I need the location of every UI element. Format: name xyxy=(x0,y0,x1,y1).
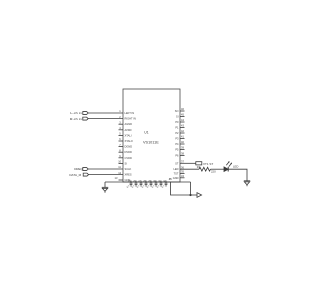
svg-text:ST: ST xyxy=(175,161,179,165)
wire pin 36 to resistor R1 xyxy=(180,168,199,170)
svg-text:P4: P4 xyxy=(175,142,179,146)
svg-text:L-ch in: L-ch in xyxy=(70,111,82,115)
pin 10 stub xyxy=(119,162,124,164)
pin 13 stub xyxy=(119,179,124,181)
right pin numbers xyxy=(181,107,184,178)
port P2 R-ch input connector xyxy=(83,117,88,120)
pin 39 stub xyxy=(180,149,185,151)
svg-text:LED: LED xyxy=(233,164,238,168)
pin 42 stub xyxy=(180,132,185,134)
wire D1 cathode to ground xyxy=(228,169,247,181)
wire port P1 to pin 1 xyxy=(88,112,123,114)
svg-text:220: 220 xyxy=(211,170,216,174)
port P1 L-ch input connector xyxy=(83,112,88,115)
svg-text:R-ch in: R-ch in xyxy=(70,117,82,121)
capacitor C8 xyxy=(165,181,168,187)
wire bus right drop xyxy=(190,182,192,195)
wire port P2 to pin 2 xyxy=(88,118,123,120)
junction node audio out xyxy=(189,194,191,196)
svg-text:CVDD: CVDD xyxy=(125,156,132,160)
svg-text:P6: P6 xyxy=(175,154,179,158)
svg-text:P3: P3 xyxy=(175,137,179,141)
capacitor C6 xyxy=(155,181,158,187)
svg-text:XTALI: XTALI xyxy=(125,133,132,137)
wire pin 37 to jumper J1 xyxy=(180,162,196,164)
wire R1 to LED D1 anode xyxy=(211,168,225,170)
wire bus to left ground xyxy=(104,182,106,187)
port P4 input connector xyxy=(83,173,88,176)
wire port P3 to pin 11 xyxy=(88,168,123,170)
capacitor C7 xyxy=(160,181,163,187)
jumper J1 box xyxy=(196,162,202,165)
LED D1 triangle xyxy=(224,167,228,172)
ground symbol right (LED) xyxy=(244,181,250,186)
svg-text:LEFT IN: LEFT IN xyxy=(125,111,135,115)
left pin numbers xyxy=(115,109,122,180)
ground symbol left xyxy=(102,187,108,192)
pin 38 stub xyxy=(180,155,185,157)
capacitor C4 xyxy=(145,181,148,187)
LED D1 cathode bar xyxy=(227,167,229,172)
wire port P4 to pin 12 xyxy=(89,174,123,176)
pin 44 stub xyxy=(180,121,185,123)
svg-text:VS1011E: VS1011E xyxy=(143,141,159,145)
capacitor C1 xyxy=(130,181,133,187)
svg-text:SI: SI xyxy=(176,115,179,119)
pin 35 stub xyxy=(180,173,185,175)
ground bus bottom xyxy=(105,181,191,183)
svg-text:P0: P0 xyxy=(175,120,179,124)
svg-text:R1: R1 xyxy=(197,165,201,169)
svg-text:LED: LED xyxy=(173,167,178,171)
svg-text:AGND: AGND xyxy=(125,122,133,126)
pin 46 stub xyxy=(180,110,185,112)
svg-text:XTALO: XTALO xyxy=(125,139,133,143)
wire audio out left drop xyxy=(171,182,191,195)
svg-text:SCLK: SCLK xyxy=(125,167,132,171)
svg-text:DREQ: DREQ xyxy=(74,167,83,171)
svg-text:U1: U1 xyxy=(144,131,148,135)
pin 6 stub xyxy=(119,140,124,142)
pin 7 stub xyxy=(119,146,124,148)
svg-text:SO: SO xyxy=(175,109,179,113)
wire junction to output port xyxy=(191,194,198,196)
svg-text:VT1 ST: VT1 ST xyxy=(203,162,213,166)
svg-text:TST: TST xyxy=(174,172,179,176)
svg-text:AVDD: AVDD xyxy=(125,128,132,132)
pin 45 stub xyxy=(180,116,185,118)
svg-text:DGND: DGND xyxy=(125,145,133,149)
capacitor C5 xyxy=(150,181,153,187)
capacitor C3 xyxy=(140,181,143,187)
pin 3 stub xyxy=(119,123,124,125)
resistor R1 zigzag xyxy=(199,167,211,171)
svg-text:XRES: XRES xyxy=(125,173,132,177)
svg-text:SI: SI xyxy=(125,161,128,165)
svg-text:RIGHT IN: RIGHT IN xyxy=(125,117,136,121)
LED D1 emission arrow 1 xyxy=(226,161,229,165)
pin 8 stub xyxy=(119,151,124,153)
pin 41 stub xyxy=(180,138,185,140)
pin 4 stub xyxy=(119,129,124,131)
port P3 input connector xyxy=(83,168,88,171)
svg-text:P1: P1 xyxy=(175,126,179,130)
left pin labels inside IC xyxy=(125,111,136,182)
pin 9 stub xyxy=(119,157,124,159)
pin 34 stub xyxy=(180,177,185,179)
pin 5 stub xyxy=(119,134,124,136)
svg-text:DATA_M: DATA_M xyxy=(69,173,81,177)
svg-text:P2: P2 xyxy=(175,131,179,135)
svg-text:GND: GND xyxy=(173,176,179,180)
IC U1 body xyxy=(123,89,180,182)
capacitor C2 xyxy=(135,181,138,187)
output port OUT connector xyxy=(197,193,202,198)
svg-text:DVDD: DVDD xyxy=(125,150,132,154)
pin 40 stub xyxy=(180,143,185,145)
right pin labels inside IC xyxy=(173,109,179,180)
pin 43 stub xyxy=(180,127,185,129)
LED D1 emission arrow 2 xyxy=(229,163,232,167)
svg-text:P5: P5 xyxy=(175,148,179,152)
